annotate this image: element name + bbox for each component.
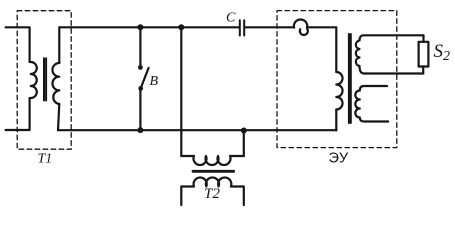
switch B blade: [141, 68, 149, 88]
wire: S2 bottom lead: [422, 67, 424, 74]
transformer T1 primary winding: [31, 62, 37, 98]
svg-text:C: C: [226, 11, 236, 26]
svg-text:S2: S2: [434, 41, 451, 64]
svg-text:B: B: [150, 74, 159, 89]
transformer T2 primary winding: [181, 156, 244, 165]
svg-text:T2: T2: [204, 186, 220, 202]
node: junction top of switch branch: [137, 24, 143, 30]
dashed box T1 enclosure: [17, 11, 71, 150]
transformer T2 secondary winding: [181, 178, 244, 205]
svg-text:T1: T1: [38, 152, 53, 167]
wire: T2 primary right lead up to bottom bus: [243, 131, 245, 157]
wire: output transformer left winding to bottom bus: [335, 110, 337, 131]
wire: loop to output transformer: [307, 27, 336, 72]
wire: S2 top lead: [422, 35, 424, 42]
wire: switch branch lower: [139, 90, 141, 130]
wire: T1 primary top stub: [6, 27, 30, 62]
wire: T2 branch from top bus to T2 primary: [180, 27, 182, 156]
output transformer top-right winding with terminals to S2: [356, 35, 424, 73]
transformer T1 secondary winding: [52, 63, 59, 104]
wire: top bus capacitor to loop: [246, 26, 295, 28]
transformer T2 core: [193, 170, 234, 173]
wire: top bus from T1 to capacitor: [59, 26, 239, 28]
dashed box EU enclosure: [277, 11, 397, 148]
node: junction top of T2 branch: [178, 24, 184, 30]
transformer T1 core: [44, 58, 46, 100]
switch B top contact: [138, 65, 143, 70]
wire: T1 secondary bottom vertical: [58, 104, 59, 130]
svg-text:ЭУ: ЭУ: [329, 151, 349, 167]
wire: T1 primary bottom stub: [6, 98, 30, 130]
resistor S2: [419, 42, 429, 67]
output transformer bottom-right winding: [355, 86, 388, 122]
wire: switch branch upper: [139, 27, 141, 65]
node: junction bottom of switch branch: [137, 127, 143, 133]
switch B bottom contact: [138, 86, 143, 91]
node: junction T2 right lead on bottom bus: [241, 128, 247, 134]
wire: T1 secondary top vertical: [58, 27, 60, 63]
coupling loop symbol: [294, 19, 308, 34]
output transformer left winding: [336, 72, 342, 110]
capacitor C plates: [240, 20, 244, 35]
output transformer core: [349, 34, 351, 123]
wire: bottom bus: [58, 129, 336, 131]
